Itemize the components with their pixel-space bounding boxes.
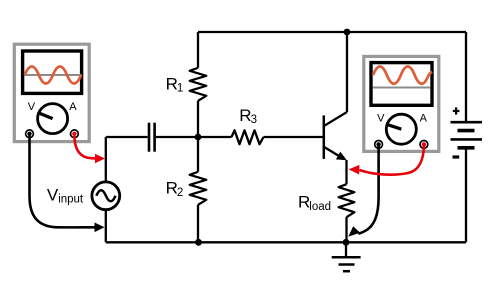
svg-text:V: V	[47, 186, 59, 205]
svg-text:V: V	[28, 101, 36, 113]
svg-text:input: input	[58, 194, 84, 206]
svg-text:1: 1	[177, 83, 183, 95]
svg-text:2: 2	[177, 187, 183, 199]
svg-text:V: V	[377, 113, 385, 125]
svg-text:3: 3	[251, 114, 257, 126]
svg-text:A: A	[69, 101, 77, 113]
svg-text:load: load	[309, 201, 331, 213]
svg-text:A: A	[420, 113, 428, 125]
